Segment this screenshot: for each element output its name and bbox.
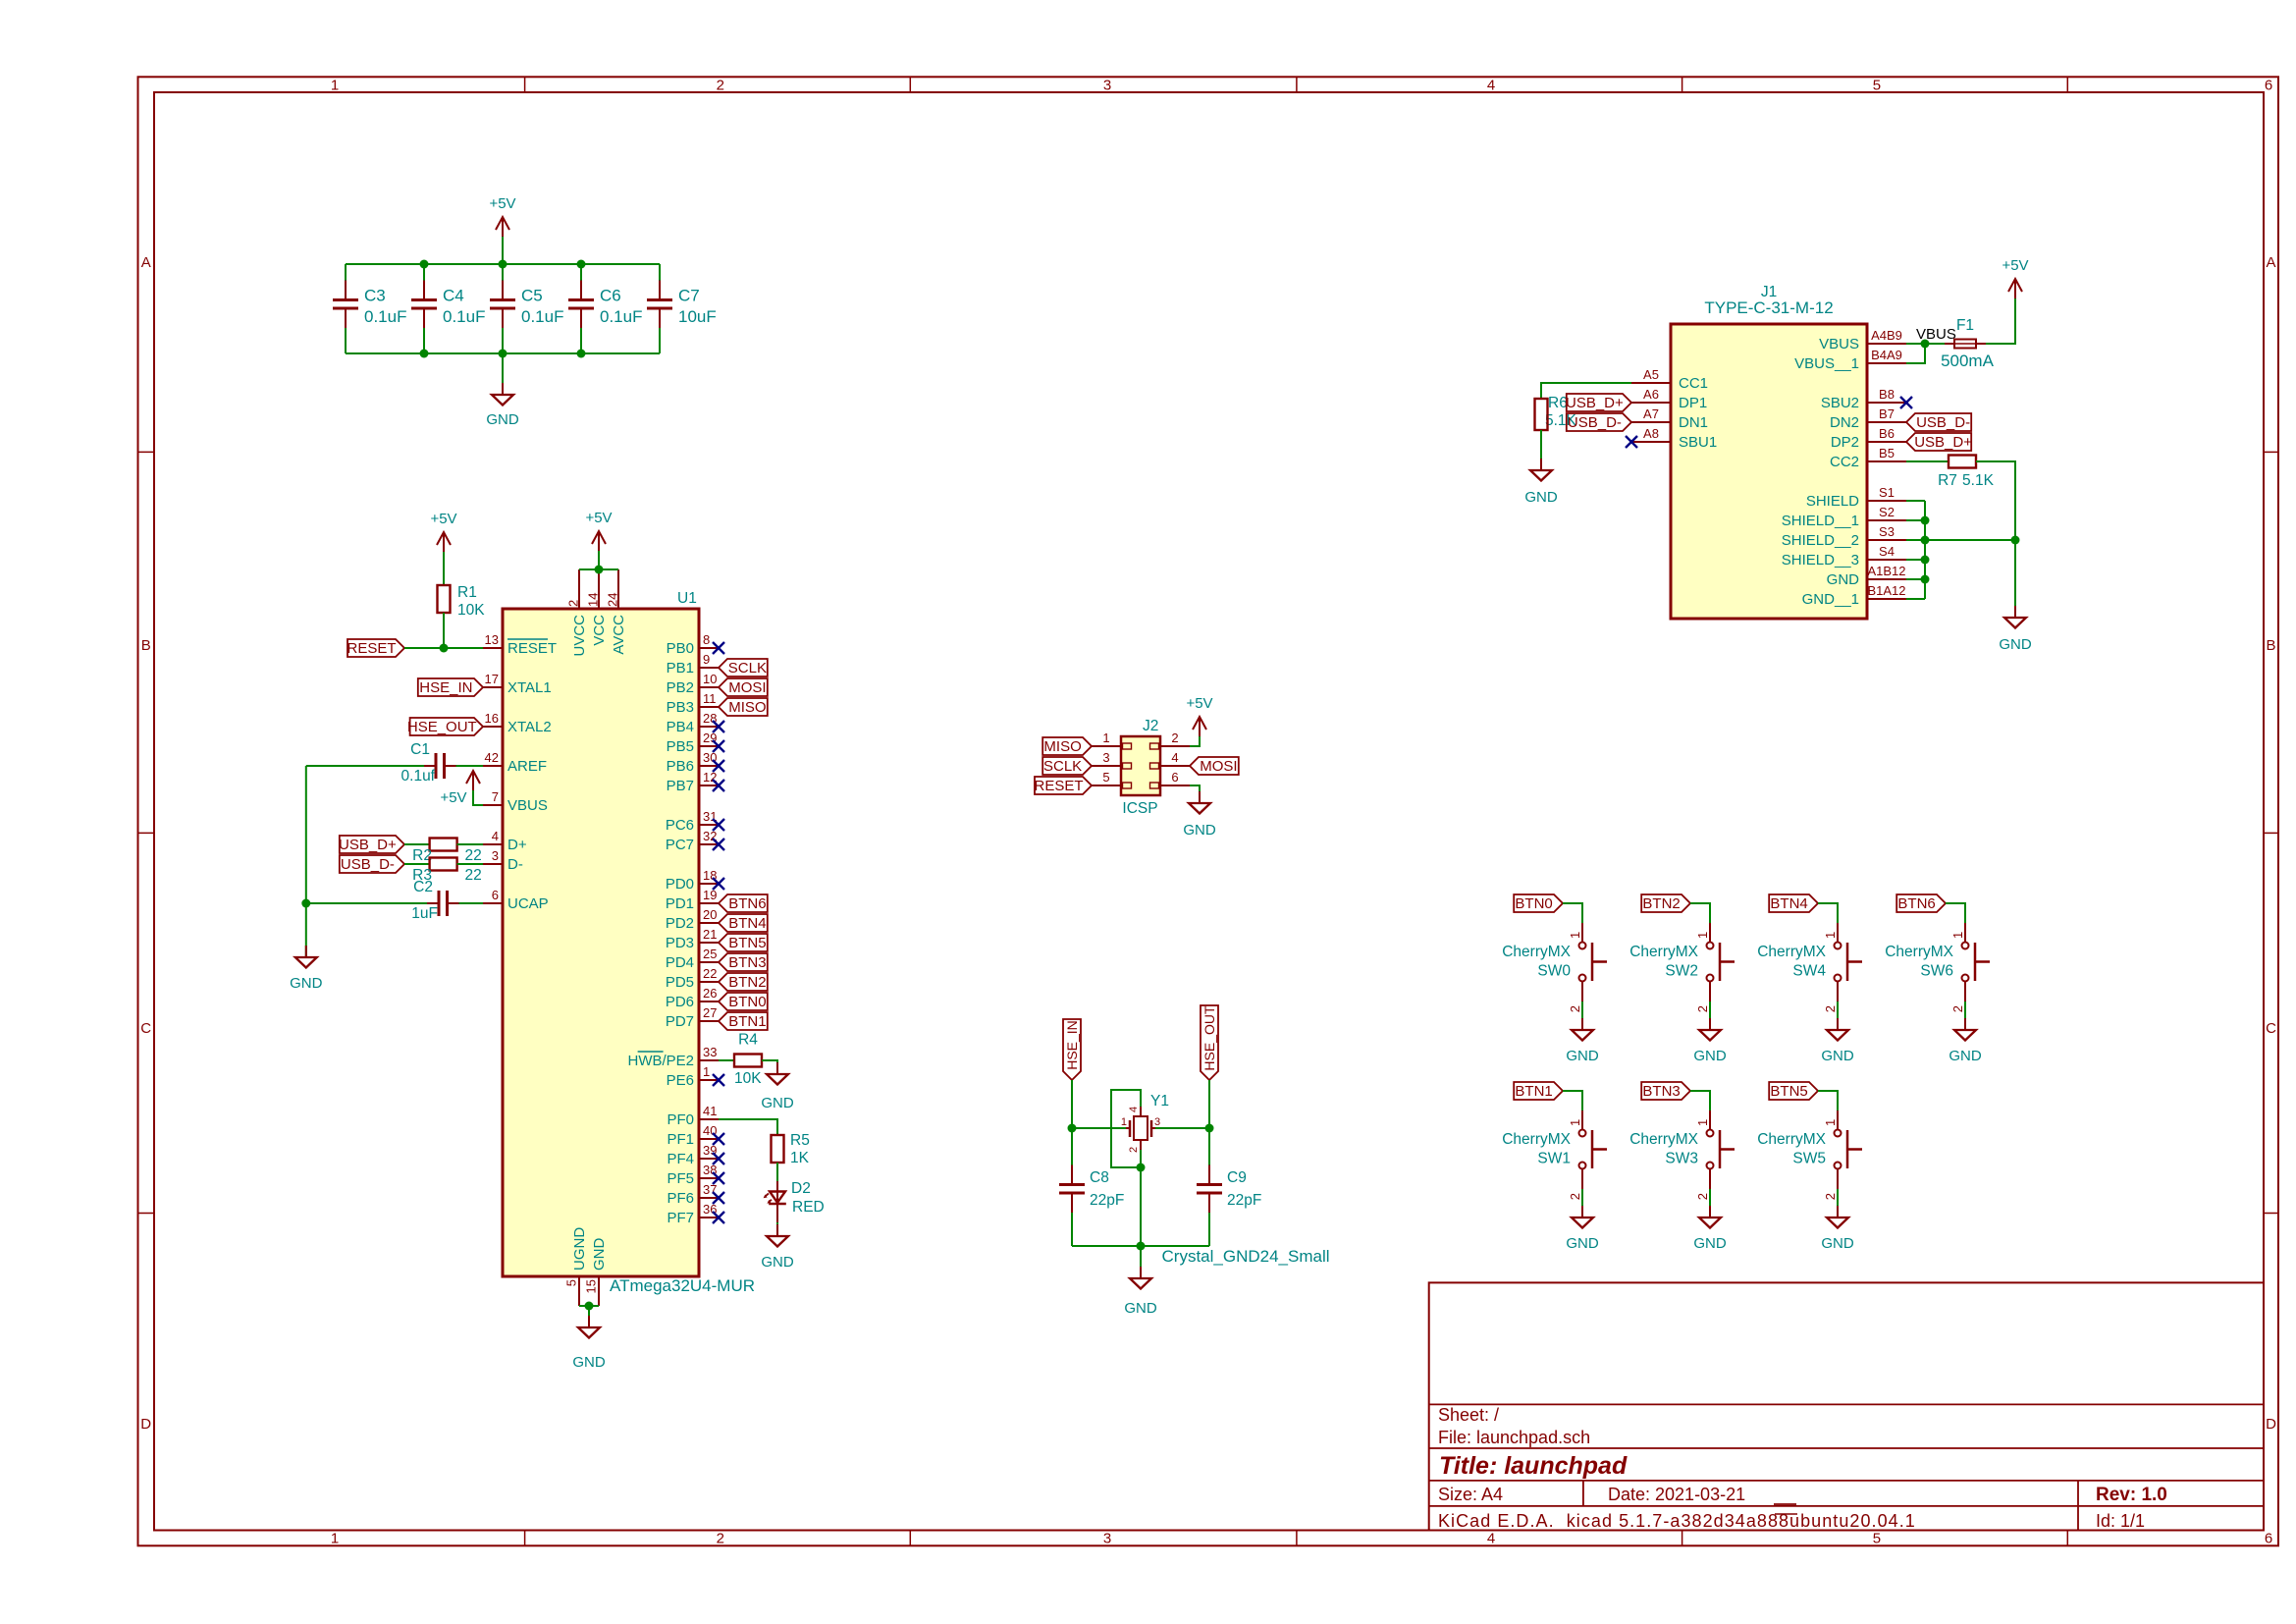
wire HSE_IN to Y1 pin 1	[1072, 1127, 1126, 1129]
ground at J2	[1199, 791, 1201, 803]
global label BTN5	[719, 934, 768, 951]
wire SW0 to ground	[1581, 1001, 1583, 1030]
svg-text:File: launchpad.sch: File: launchpad.sch	[1438, 1428, 1590, 1447]
J1 pin A8 SBU1	[1631, 441, 1671, 443]
no-connect X on SBU1	[1626, 436, 1637, 448]
svg-text:PB0: PB0	[667, 640, 694, 657]
ground below SW3	[1709, 1206, 1711, 1218]
svg-text:2: 2	[1128, 1147, 1140, 1153]
svg-text:500mA: 500mA	[1941, 352, 1995, 370]
global label BTN4	[719, 914, 768, 932]
wire shield bus vertical	[1924, 501, 1926, 599]
U1 pin 10 PB2	[699, 686, 719, 688]
svg-text:13: 13	[485, 632, 499, 647]
global label BTN6	[719, 894, 768, 912]
J1 pin A5 CC1	[1631, 382, 1671, 384]
svg-text:VCC: VCC	[591, 615, 608, 646]
svg-text:33: 33	[703, 1045, 717, 1059]
global label HSE_OUT at Y1	[1201, 1005, 1218, 1080]
svg-text:4: 4	[1128, 1107, 1140, 1112]
U1 pin 17 XTAL1	[483, 686, 503, 688]
svg-text:Size: A4: Size: A4	[1438, 1485, 1503, 1504]
ground below Y1	[1140, 1267, 1142, 1278]
svg-text:PF4: PF4	[667, 1151, 694, 1167]
J1 pin A4B9 VBUS	[1867, 343, 1906, 345]
svg-text:8: 8	[703, 632, 710, 647]
svg-text:VBUS__1: VBUS__1	[1794, 355, 1859, 372]
wire VCC rail above U1	[579, 568, 618, 570]
svg-text:0.1uF: 0.1uF	[443, 307, 485, 326]
svg-text:D: D	[140, 1416, 151, 1433]
svg-text:19: 19	[703, 888, 717, 902]
svg-text:PD3: PD3	[666, 935, 694, 951]
svg-text:PC6: PC6	[666, 817, 694, 834]
svg-text:A7: A7	[1643, 406, 1659, 421]
junction bottom rail at C6	[577, 350, 586, 358]
svg-text:6: 6	[2265, 78, 2272, 94]
connector J2 ICSP body	[1121, 736, 1160, 795]
U1 pin 21 PD3	[699, 942, 719, 944]
U1 pin 15 GND	[598, 1276, 600, 1306]
no-connect X on PE6	[713, 1074, 724, 1086]
ground below SW0	[1581, 1018, 1583, 1030]
svg-text:42: 42	[485, 750, 499, 765]
wire CC2 to R7	[1906, 460, 1949, 462]
wire SW5 to ground	[1837, 1189, 1839, 1218]
svg-text:B7: B7	[1879, 406, 1895, 421]
U1 pin 18 PD0	[699, 883, 719, 885]
svg-text:A4B9: A4B9	[1871, 328, 1902, 343]
svg-text:2: 2	[1568, 1005, 1582, 1012]
svg-text:GND: GND	[1999, 636, 2032, 653]
wire SHIELD S1	[1906, 500, 1925, 502]
svg-text:HSE_IN: HSE_IN	[419, 679, 472, 696]
svg-text:22pF: 22pF	[1227, 1192, 1261, 1209]
svg-text:5.1K: 5.1K	[1962, 472, 1995, 489]
svg-text:CC2: CC2	[1830, 454, 1859, 470]
svg-text:PD1: PD1	[666, 895, 694, 912]
wire BTN4 to switch	[1818, 903, 1838, 923]
svg-text:PB5: PB5	[667, 738, 694, 755]
svg-text:SBU2: SBU2	[1821, 395, 1859, 411]
wire GND bottom rail of decoupling bank	[346, 352, 660, 354]
capacitor C8 22pF	[1059, 1183, 1085, 1186]
crystal Y1 Crystal_GND24_Small	[1134, 1116, 1148, 1140]
wire R3 to D- pin	[457, 863, 483, 865]
wire to ground below U1	[588, 1306, 590, 1327]
global label USB_D+ at J1 right	[1906, 433, 1971, 451]
svg-text:HSE_OUT: HSE_OUT	[1201, 1005, 1217, 1071]
global label BTN0	[719, 993, 768, 1010]
wire R2 to D+ pin	[457, 843, 483, 845]
J1 pin A1B12 GND	[1867, 578, 1906, 580]
svg-text:14: 14	[586, 593, 601, 607]
svg-text:CherryMX: CherryMX	[1502, 944, 1571, 960]
svg-text:PF1: PF1	[667, 1131, 694, 1148]
wire UCAP to C2	[459, 902, 484, 904]
wire BTN1 to switch	[1563, 1091, 1582, 1110]
no-connect X on PB0	[713, 642, 724, 654]
svg-text:D-: D-	[507, 856, 523, 873]
svg-text:CherryMX: CherryMX	[1757, 1131, 1826, 1148]
svg-text:0.1uF: 0.1uF	[521, 307, 563, 326]
global label MOSI at J2	[1190, 757, 1239, 775]
resistor R7 5.1K	[1949, 456, 1976, 468]
svg-text:7: 7	[492, 789, 499, 804]
svg-text:2: 2	[1568, 1193, 1582, 1200]
svg-text:J2: J2	[1143, 718, 1158, 734]
svg-text:1: 1	[331, 1531, 339, 1547]
svg-text:BTN3: BTN3	[728, 954, 766, 971]
no-connect X on PC6	[713, 819, 724, 831]
svg-text:2: 2	[1695, 1193, 1710, 1200]
wire C8 top lead	[1071, 1128, 1073, 1165]
svg-text:MISO: MISO	[728, 699, 766, 716]
no-connect X on PD0	[713, 878, 724, 890]
U1 pin 5 UGND	[578, 1276, 580, 1306]
capacitor C4 0.1uF	[411, 298, 437, 301]
svg-text:PB6: PB6	[667, 758, 694, 775]
svg-text:F1: F1	[1956, 317, 1974, 334]
U1 pin 14 VCC	[598, 569, 600, 609]
U1 pin 25 PD4	[699, 961, 719, 963]
svg-text:VBUS: VBUS	[1819, 336, 1859, 352]
capacitor C1 0.1uf	[435, 753, 438, 779]
wire BTN3 to switch	[1690, 1091, 1710, 1110]
U1 pin 27 PD7	[699, 1020, 719, 1022]
svg-text:R6: R6	[1548, 395, 1568, 411]
svg-text:C1: C1	[410, 741, 430, 758]
wire RESET label to U1 pin 13	[404, 647, 483, 649]
svg-text:A1B12: A1B12	[1867, 564, 1905, 578]
U1 pin 9 PB1	[699, 667, 719, 669]
svg-text:Id: 1/1: Id: 1/1	[2096, 1511, 2145, 1531]
svg-text:PB7: PB7	[667, 778, 694, 794]
svg-text:GND: GND	[486, 411, 519, 428]
U1 pin 39 PF4	[699, 1158, 719, 1160]
svg-text:2: 2	[1823, 1193, 1838, 1200]
svg-text:22: 22	[465, 867, 482, 884]
capacitor C3 0.1uF	[333, 298, 358, 301]
wire R6 to ground	[1540, 430, 1542, 470]
svg-text:3: 3	[1154, 1116, 1160, 1128]
svg-text:PC7: PC7	[666, 837, 694, 853]
ground cap bank	[502, 383, 504, 395]
svg-text:PF7: PF7	[667, 1210, 694, 1226]
wire +5V top rail of decoupling bank	[346, 263, 660, 265]
svg-text:1: 1	[1823, 932, 1838, 939]
wire R7 to ground net	[1976, 461, 2015, 540]
svg-text:PF0: PF0	[667, 1111, 694, 1128]
svg-text:SCLK: SCLK	[728, 660, 767, 677]
svg-text:GND: GND	[761, 1254, 794, 1271]
wire R1 to RESET net	[443, 613, 445, 648]
svg-text:S4: S4	[1879, 544, 1895, 559]
svg-text:RED: RED	[792, 1199, 825, 1216]
svg-text:C7: C7	[678, 287, 700, 305]
svg-text:PD2: PD2	[666, 915, 694, 932]
switch SW2 CherryMX	[1709, 923, 1711, 943]
junction RESET/R1	[440, 644, 449, 653]
svg-text:USB_D-: USB_D-	[1568, 414, 1622, 431]
svg-text:+5V: +5V	[430, 511, 456, 527]
U1 pin 41 PF0	[699, 1118, 719, 1120]
J2 pin 2	[1160, 745, 1190, 747]
global label SCLK at J2	[1042, 757, 1092, 775]
svg-text:1: 1	[1695, 932, 1710, 939]
svg-text:SCLK: SCLK	[1043, 758, 1082, 775]
U1 pin 16 XTAL2	[483, 726, 503, 728]
svg-text:BTN3: BTN3	[1642, 1083, 1680, 1100]
svg-text:2: 2	[717, 78, 724, 94]
svg-text:2: 2	[1823, 1005, 1838, 1012]
global label USB_D- at J1 right	[1906, 413, 1971, 431]
svg-text:C6: C6	[600, 287, 621, 305]
J2 pin 1	[1092, 745, 1121, 747]
ground below SW4	[1837, 1018, 1839, 1030]
svg-text:MOSI: MOSI	[728, 679, 766, 696]
svg-text:A6: A6	[1643, 387, 1659, 402]
no-connect X on PF6	[713, 1192, 724, 1204]
power +5V at VBUS pin	[466, 771, 480, 790]
J1 pin S1 SHIELD	[1867, 500, 1906, 502]
power +5V at J1	[2008, 279, 2022, 298]
wire HSE_IN down	[1071, 1080, 1073, 1128]
wire HWB/PE2 to R4	[719, 1059, 734, 1061]
svg-text:Y1: Y1	[1150, 1093, 1169, 1110]
svg-text:10: 10	[703, 672, 717, 686]
connector J1 TYPE-C-31-M-12 body	[1671, 324, 1867, 619]
wire +5V to R1	[443, 552, 445, 585]
svg-text:CherryMX: CherryMX	[1629, 944, 1698, 960]
svg-text:4: 4	[1487, 1531, 1495, 1547]
svg-text:DP2: DP2	[1831, 434, 1859, 451]
wire C7 bottom lead	[659, 328, 661, 353]
svg-text:BTN0: BTN0	[728, 994, 766, 1010]
switch SW6 CherryMX	[1964, 923, 1966, 943]
U1 pin 1 PE6	[699, 1079, 719, 1081]
svg-text:C5: C5	[521, 287, 543, 305]
junction below U1	[585, 1302, 594, 1311]
svg-text:GND: GND	[1566, 1048, 1599, 1064]
svg-text:22pF: 22pF	[1090, 1192, 1124, 1209]
svg-text:GND: GND	[1693, 1048, 1727, 1064]
svg-text:2: 2	[1950, 1005, 1965, 1012]
capacitor C7 10uF	[647, 298, 672, 301]
svg-text:USB_D+: USB_D+	[1566, 395, 1624, 411]
global label BTN3	[719, 953, 768, 971]
capacitor C9 22pF	[1197, 1183, 1222, 1186]
svg-text:5: 5	[1873, 1531, 1881, 1547]
J2 pin 6	[1160, 785, 1190, 786]
title block	[1429, 1282, 2264, 1530]
global label BTN4	[1769, 894, 1818, 912]
wire C8 bottom lead	[1071, 1213, 1073, 1246]
wire CC1 to R6	[1541, 383, 1631, 399]
svg-text:20: 20	[703, 907, 717, 922]
svg-text:GND: GND	[1827, 571, 1860, 588]
svg-text:PD7: PD7	[666, 1013, 694, 1030]
no-connect X on PF5	[713, 1172, 724, 1184]
svg-text:BTN2: BTN2	[1642, 895, 1680, 912]
junction S2	[1921, 516, 1930, 525]
U1 pin 11 PB3	[699, 706, 719, 708]
junction VBUS node	[1921, 340, 1930, 349]
svg-text:GND: GND	[572, 1354, 606, 1371]
resistor R2 22	[430, 839, 457, 851]
J1 pin A7 DN1	[1631, 421, 1671, 423]
wire C7 top lead	[659, 264, 661, 281]
junction bottom rail at C5	[499, 350, 507, 358]
U1 pin 19 PD1	[699, 902, 719, 904]
svg-text:BTN2: BTN2	[728, 974, 766, 991]
svg-text:3: 3	[492, 848, 499, 863]
wire BTN5 to switch	[1818, 1091, 1838, 1110]
wire GND stem cap bank	[502, 353, 504, 395]
svg-text:C: C	[2266, 1020, 2276, 1037]
svg-text:SHIELD__3: SHIELD__3	[1782, 552, 1859, 568]
svg-text:3: 3	[1103, 78, 1111, 94]
U1 pin 24 AVCC	[617, 569, 619, 609]
U1 pin 4 D+	[483, 843, 503, 845]
U1 pin 7 VBUS	[483, 804, 503, 806]
junction crystal ground rail	[1137, 1242, 1146, 1251]
svg-text:DN1: DN1	[1679, 414, 1708, 431]
svg-text:+5V: +5V	[440, 789, 466, 806]
svg-text:B8: B8	[1879, 387, 1895, 402]
switch SW4 CherryMX	[1837, 923, 1839, 943]
svg-text:R4: R4	[738, 1032, 758, 1049]
svg-text:SHIELD__1: SHIELD__1	[1782, 513, 1859, 529]
svg-text:GND: GND	[290, 975, 323, 992]
J2 pin 5	[1092, 785, 1121, 786]
svg-text:S2: S2	[1879, 505, 1895, 519]
junction shield/GND drop	[2011, 536, 2020, 545]
wire fuse to +5V	[1986, 298, 2015, 344]
wire +5V stem cap bank	[502, 237, 504, 264]
no-connect X on PB4	[713, 721, 724, 732]
J1 pin B4A9 VBUS__1	[1867, 362, 1906, 364]
wire SW3 to ground	[1709, 1189, 1711, 1218]
wire SW4 to ground	[1837, 1001, 1839, 1030]
svg-text:B6: B6	[1879, 426, 1895, 441]
J1 pin B5 CC2	[1867, 460, 1906, 462]
J2 pin 4	[1160, 765, 1190, 767]
global label BTN6	[1896, 894, 1946, 912]
power +5V above R1	[437, 532, 451, 552]
fuse F1 500mA	[1945, 343, 1954, 345]
U1 pin 28 PB4	[699, 726, 719, 728]
wire BTN2 to switch	[1690, 903, 1710, 923]
no-connect X on PB6	[713, 760, 724, 772]
svg-text:HWB/PE2: HWB/PE2	[627, 1053, 694, 1069]
svg-text:27: 27	[703, 1005, 717, 1020]
svg-text:Rev: 1.0: Rev: 1.0	[2096, 1485, 2167, 1505]
svg-text:SW2: SW2	[1665, 963, 1698, 980]
svg-text:1: 1	[1695, 1119, 1710, 1126]
svg-text:PB3: PB3	[667, 699, 694, 716]
svg-text:1uF: 1uF	[411, 905, 438, 922]
U1 pin 33 HWB/PE2	[699, 1059, 719, 1061]
global label SCLK	[719, 659, 768, 677]
svg-text:BTN5: BTN5	[1770, 1083, 1807, 1100]
svg-text:AVCC: AVCC	[611, 615, 627, 655]
svg-text:XTAL1: XTAL1	[507, 679, 552, 696]
svg-text:2: 2	[566, 600, 581, 607]
svg-text:DP1: DP1	[1679, 395, 1707, 411]
svg-text:C4: C4	[443, 287, 464, 305]
svg-text:VBUS: VBUS	[1916, 326, 1956, 343]
svg-text:C: C	[140, 1020, 151, 1037]
svg-text:ICSP: ICSP	[1122, 800, 1157, 817]
no-connect X on PB5	[713, 740, 724, 752]
wire USB_D+ to R2	[404, 843, 430, 845]
svg-text:B: B	[2266, 637, 2275, 654]
svg-text:PF5: PF5	[667, 1170, 694, 1187]
ground below SW5	[1837, 1206, 1839, 1218]
no-connect X on PB7	[713, 780, 724, 791]
svg-text:GND: GND	[1821, 1048, 1854, 1064]
svg-text:ATmega32U4-MUR: ATmega32U4-MUR	[610, 1276, 755, 1295]
svg-text:BTN1: BTN1	[1515, 1083, 1552, 1100]
svg-text:21: 21	[703, 927, 717, 942]
svg-text:1: 1	[1568, 1119, 1582, 1126]
svg-text:GND: GND	[1124, 1300, 1157, 1317]
global label BTN2	[719, 973, 768, 991]
svg-text:USB_D+: USB_D+	[1914, 434, 1972, 451]
wire SW6 to ground	[1964, 1001, 1966, 1030]
svg-text:RESET: RESET	[347, 640, 396, 657]
wire C5 bottom lead	[502, 328, 504, 353]
junction HSE_IN node	[1068, 1124, 1077, 1133]
junction S4	[1921, 556, 1930, 565]
svg-text:A5: A5	[1643, 367, 1659, 382]
svg-text:BTN0: BTN0	[1515, 895, 1552, 912]
wire USB_D- to R3	[404, 863, 430, 865]
switch SW0 CherryMX	[1581, 923, 1583, 943]
wire C1 left to GND net	[306, 765, 424, 767]
svg-text:11: 11	[703, 691, 717, 706]
svg-text:UVCC: UVCC	[571, 615, 588, 657]
svg-text:PB2: PB2	[667, 679, 694, 696]
wire Y1 ground node down	[1140, 1167, 1142, 1246]
global label BTN2	[1641, 894, 1690, 912]
svg-text:0.1uF: 0.1uF	[364, 307, 406, 326]
capacitor C6 0.1uF	[568, 298, 594, 301]
svg-text:R5: R5	[790, 1132, 810, 1149]
capacitor C5 0.1uF	[490, 298, 515, 301]
J1 pin S4 SHIELD__3	[1867, 559, 1906, 561]
wire to ground below Y1	[1140, 1246, 1142, 1278]
svg-text:0.1uF: 0.1uF	[600, 307, 642, 326]
wire D2 to ground	[776, 1203, 778, 1222]
svg-text:+5V: +5V	[585, 510, 612, 526]
wire C6 top lead	[580, 264, 582, 281]
junction GND net at C2	[301, 899, 310, 908]
svg-text:22: 22	[465, 847, 482, 864]
svg-text:GND: GND	[591, 1238, 608, 1272]
svg-text:USB_D+: USB_D+	[339, 837, 397, 853]
svg-text:S3: S3	[1879, 524, 1895, 539]
global label BTN5	[1769, 1082, 1818, 1100]
svg-text:GND: GND	[1566, 1235, 1599, 1252]
svg-text:PF6: PF6	[667, 1190, 694, 1207]
no-connect X on PF4	[713, 1153, 724, 1164]
svg-text:A8: A8	[1643, 426, 1659, 441]
svg-text:GND: GND	[1949, 1048, 1982, 1064]
svg-text:B5: B5	[1879, 446, 1895, 460]
wire SW1 to ground	[1581, 1189, 1583, 1218]
